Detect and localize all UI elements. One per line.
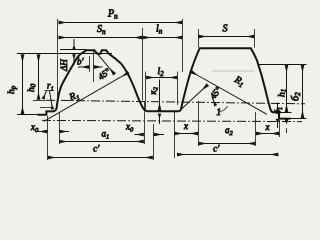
wire extension line P_n right bbox=[182, 19, 184, 72]
node faint line inside right tooth bbox=[212, 70, 254, 72]
dimension x_0 left bbox=[37, 131, 48, 133]
svg-text:R1: R1 bbox=[231, 74, 246, 90]
svg-text:ln: ln bbox=[156, 24, 163, 36]
dimension x_0 right bbox=[135, 134, 144, 136]
dimension x right of right tooth bbox=[256, 133, 279, 135]
svg-text:к2: к2 bbox=[148, 86, 160, 94]
dimension K_2 bbox=[159, 80, 161, 111]
wire extension line right flank pitch bbox=[142, 28, 144, 100]
node h_0 bottom reference line bbox=[33, 100, 46, 102]
svg-text:c′: c′ bbox=[213, 145, 220, 155]
wire extension line c-prime left right end bbox=[153, 124, 155, 160]
svg-text:hp: hp bbox=[7, 85, 18, 94]
dimension l_n bbox=[143, 37, 183, 39]
dimension c-prime right bbox=[177, 154, 278, 156]
dimension b_1 bbox=[277, 103, 279, 112]
svg-text:Sn: Sn bbox=[97, 24, 106, 36]
svg-text:x0: x0 bbox=[125, 122, 134, 134]
dimension h_0 bbox=[38, 54, 40, 99]
svg-text:x: x bbox=[265, 122, 270, 132]
wire extension line a1 right bbox=[144, 101, 146, 144]
svg-text:a2: a2 bbox=[225, 125, 234, 137]
dimension b-prime bbox=[89, 56, 91, 72]
svg-text:Pn: Pn bbox=[107, 9, 118, 21]
svg-text:45°: 45° bbox=[208, 85, 224, 101]
node up arrow at h1 axis lower land bbox=[286, 119, 288, 123]
svg-text:h0: h0 bbox=[27, 83, 38, 92]
node r1 fillet leader left tooth bbox=[50, 91, 53, 109]
dimension P_n bbox=[59, 22, 183, 24]
wire extension line x right-tooth B bbox=[198, 101, 200, 146]
wire extension line a2 right bbox=[255, 112, 257, 146]
right tooth profile bbox=[179, 48, 291, 118]
node 45-degree chamfer line left tooth bbox=[95, 50, 115, 74]
svg-text:l2: l2 bbox=[158, 67, 165, 78]
wire extension line S left bbox=[198, 29, 200, 48]
svg-text:c′: c′ bbox=[93, 145, 100, 155]
node top reference line right bbox=[259, 64, 307, 66]
dimension b_2 bbox=[302, 65, 304, 119]
dimension S_n bbox=[59, 37, 143, 39]
dimension h_p bbox=[22, 54, 24, 114]
dimension x left of right tooth bbox=[174, 133, 198, 135]
svg-text:h1: h1 bbox=[278, 89, 289, 97]
dimension a_2 bbox=[199, 143, 256, 145]
node R1 radius line right tooth bbox=[191, 72, 267, 115]
dimension a_1 bbox=[59, 141, 144, 143]
svg-text:b′: b′ bbox=[77, 57, 85, 67]
svg-text:x0: x0 bbox=[30, 122, 39, 134]
svg-text:ΔH: ΔH bbox=[59, 59, 69, 72]
wire extension line x right D bbox=[279, 120, 281, 137]
node crest reference line bbox=[17, 53, 112, 55]
dimension l_2 bbox=[145, 72, 147, 112]
wire extension line x0 left A bbox=[47, 116, 49, 160]
wire extension line x0 left B bbox=[59, 113, 61, 144]
wire extension line left flank pitch bbox=[57, 19, 59, 97]
node 45-degree line right tooth bbox=[182, 85, 208, 109]
node bump top reference line bbox=[60, 49, 86, 51]
node lower land reference line right bbox=[291, 118, 307, 120]
dimension delta-H bbox=[73, 39, 75, 50]
dimension h_1 bbox=[286, 65, 288, 113]
svg-text:S: S bbox=[223, 24, 228, 35]
svg-text:x: x bbox=[183, 121, 188, 131]
node h_p bottom reference line bbox=[17, 114, 38, 116]
wire root axis dash-dot line bbox=[42, 120, 302, 121]
wire extension line x right-tooth A bbox=[174, 112, 176, 159]
wire extension line S right bbox=[254, 29, 256, 48]
node R1 radius line left tooth bbox=[44, 73, 129, 122]
dimension S bbox=[198, 36, 254, 38]
svg-text:R1: R1 bbox=[67, 90, 81, 105]
dimension c-prime left bbox=[48, 157, 153, 159]
wire pitch dash-dot centerline bbox=[46, 100, 305, 104]
svg-text:б1: б1 bbox=[274, 107, 285, 114]
left tooth profile bbox=[38, 50, 180, 115]
svg-text:a1: a1 bbox=[102, 129, 110, 141]
svg-text:б2: б2 bbox=[291, 92, 303, 101]
node upper land reference line right bbox=[273, 112, 292, 114]
node auxiliary root line bbox=[40, 107, 52, 109]
